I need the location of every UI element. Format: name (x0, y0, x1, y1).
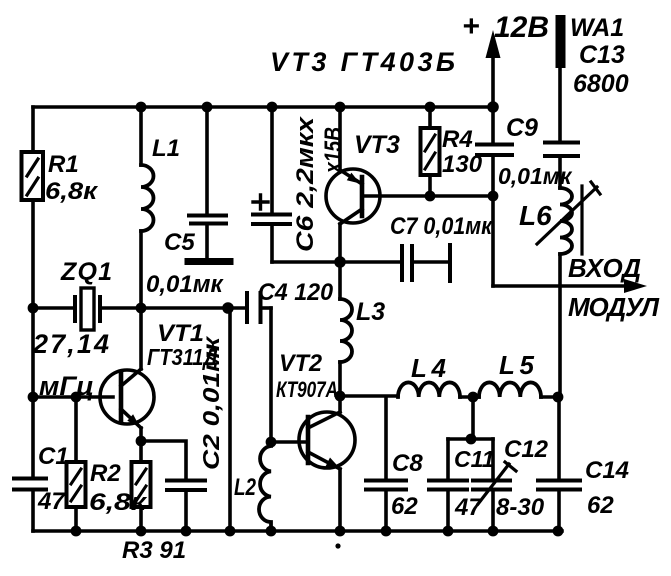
junction L5 / right column (553, 392, 564, 403)
capacitor C6 (253, 107, 290, 262)
capacitor C9 (477, 107, 512, 196)
transistor VT3 (326, 107, 380, 262)
svg-text:R4: R4 (442, 126, 473, 153)
inductor L3 (338, 262, 342, 396)
junction bottom rail / L2 (266, 526, 277, 537)
junction top rail / C6 (267, 102, 278, 113)
wire bracket C11 C12 (448, 397, 493, 439)
capacitor C11 (429, 439, 467, 531)
svg-text:WA1: WA1 (570, 14, 624, 42)
wire right column to C14 (557, 397, 561, 478)
inductor L2 (259, 442, 271, 531)
svg-text:L5: L5 (499, 350, 535, 380)
svg-text:L6: L6 (519, 200, 552, 231)
svg-text:47: 47 (454, 494, 483, 521)
svg-text:МОДУЛ: МОДУЛ (568, 292, 660, 322)
wire VT3 base (362, 194, 493, 198)
capacitor C14 (538, 481, 580, 532)
wire collector VT3 node (272, 260, 399, 264)
svg-text:6,8к: 6,8к (89, 489, 148, 516)
svg-text:VT2: VT2 (279, 350, 323, 377)
antenna WA1 (555, 20, 566, 140)
resistor R1 (22, 152, 44, 200)
junction bottom rail / R2 (71, 526, 82, 537)
wire C4 down to VT2 base (269, 308, 273, 442)
svg-text:0,01мк: 0,01мк (146, 271, 224, 298)
wire x141 to VT1 collector (139, 308, 143, 369)
svg-text:С6 2,2мкх: С6 2,2мкх (292, 115, 319, 252)
svg-text:C8: C8 (392, 450, 423, 477)
junction bottom rail / VT2 emitter (335, 526, 346, 537)
svg-text:C1: C1 (38, 443, 69, 470)
svg-text:12В: 12В (494, 11, 549, 44)
inductor L1 (141, 165, 154, 231)
svg-text:L1: L1 (152, 135, 180, 162)
resistor R2 (67, 397, 86, 531)
inductor L5 (479, 382, 541, 397)
svg-text:L2: L2 (234, 474, 257, 501)
svg-text:R3 91: R3 91 (122, 537, 186, 564)
transistor VT1 (100, 369, 154, 441)
junction VT3 base / R4 (425, 191, 436, 202)
inductor L4 (398, 382, 460, 397)
svg-text:C14: C14 (585, 457, 629, 484)
resistor R3 (132, 441, 151, 531)
svg-text:VT3: VT3 (354, 131, 400, 159)
capacitor C1 (14, 479, 46, 532)
svg-text:47: 47 (37, 488, 66, 515)
svg-text:R1: R1 (48, 151, 79, 178)
junction bottom rail / C11 (443, 526, 454, 537)
svg-text:0,01мк: 0,01мк (498, 163, 573, 189)
junction L4-L5 / C11 C12 tap (468, 392, 479, 403)
junction VT3 collector node (334, 256, 346, 268)
svg-text:+: + (462, 10, 480, 43)
junction bottom rail / C12 (488, 526, 499, 537)
transistor VT2 (299, 396, 355, 531)
svg-text:C9: C9 (506, 114, 538, 142)
svg-text:C7 0,01мк: C7 0,01мк (390, 213, 494, 240)
junction bottom rail / C8 (381, 526, 392, 537)
svg-text:C11: C11 (454, 446, 495, 472)
wire mid rail left (33, 306, 75, 310)
svg-text:КТ907А: КТ907А (276, 377, 338, 402)
wire x230 (228, 308, 232, 531)
svg-text:С2 0,01мк: С2 0,01мк (198, 335, 224, 470)
svg-text:C12: C12 (504, 436, 549, 463)
resistor R4 (421, 107, 440, 196)
junction mid rail / left rail (28, 303, 39, 314)
capacitor C5 (188, 107, 230, 262)
junction bottom rail / C14 (553, 526, 564, 537)
svg-text:8-30: 8-30 (496, 494, 545, 521)
junction top rail / C5 (202, 102, 213, 113)
junction bottom rail / C2 (181, 526, 192, 537)
capacitor C13 (545, 143, 578, 189)
wire VT1 base (33, 395, 113, 399)
power +12V arrow (486, 30, 501, 107)
wire output line (340, 394, 398, 398)
svg-text:62: 62 (587, 492, 614, 519)
svg-text:C5: C5 (164, 229, 195, 256)
wire mid rail to C4 (141, 306, 246, 310)
junction bottom rail / bypass wire (225, 526, 236, 537)
svg-text:L4: L4 (411, 353, 447, 383)
junction top rail / R4 (425, 102, 436, 113)
capacitor C4 (247, 293, 271, 322)
svg-text:R2: R2 (90, 460, 121, 487)
capacitor C8 (366, 397, 406, 531)
junction base wire / R2 (71, 392, 82, 403)
junction VT2 base / L2 (266, 437, 277, 448)
svg-text:мГц: мГц (39, 371, 94, 401)
wire modulation input (493, 196, 647, 293)
inductor L6 (537, 182, 600, 397)
svg-text:VT1: VT1 (157, 320, 204, 347)
svg-text:62: 62 (391, 493, 418, 520)
wire left rail upper (31, 107, 35, 476)
svg-text:L3: L3 (356, 298, 385, 326)
svg-text:ВХОД: ВХОД (568, 253, 641, 283)
svg-text:130: 130 (442, 151, 483, 178)
svg-text:C4 120: C4 120 (258, 279, 334, 306)
junction top rail / +12V (487, 101, 499, 113)
junction mid rail / bypass wire (222, 302, 234, 314)
junction bottom rail / R3 (136, 526, 147, 537)
svg-text:С13: С13 (579, 41, 625, 69)
svg-text:VT3 ГТ403Б: VT3 ГТ403Б (270, 47, 455, 77)
junction mid rail / L1 bottom (136, 303, 147, 314)
wire VT2 base (271, 440, 306, 444)
junction VT1 emitter node (136, 436, 147, 447)
capacitor C7 (402, 245, 450, 281)
svg-text:ZQ1: ZQ1 (60, 258, 112, 286)
svg-text:27,14: 27,14 (32, 329, 109, 359)
junction top rail / L1 (136, 102, 147, 113)
stray ink dot after R3 91 (335, 543, 340, 548)
junction C11-C12 bracket (466, 434, 477, 445)
svg-text:х15В: х15В (320, 127, 347, 175)
junction top rail / VT3 emitter (335, 102, 346, 113)
crystal ZQ1 (75, 288, 141, 330)
junction VT3 base / C9 (488, 191, 499, 202)
capacitor C12 trimmer (473, 439, 516, 531)
junction base wire / left rail (28, 392, 39, 403)
svg-text:6800: 6800 (573, 70, 629, 98)
capacitor C2 (141, 441, 205, 531)
svg-text:6,8к: 6,8к (45, 178, 99, 205)
wire bottom rail (33, 529, 562, 533)
junction L3 / output wire (335, 391, 346, 402)
wire top rail (33, 105, 493, 109)
wire x141 top (139, 107, 143, 165)
